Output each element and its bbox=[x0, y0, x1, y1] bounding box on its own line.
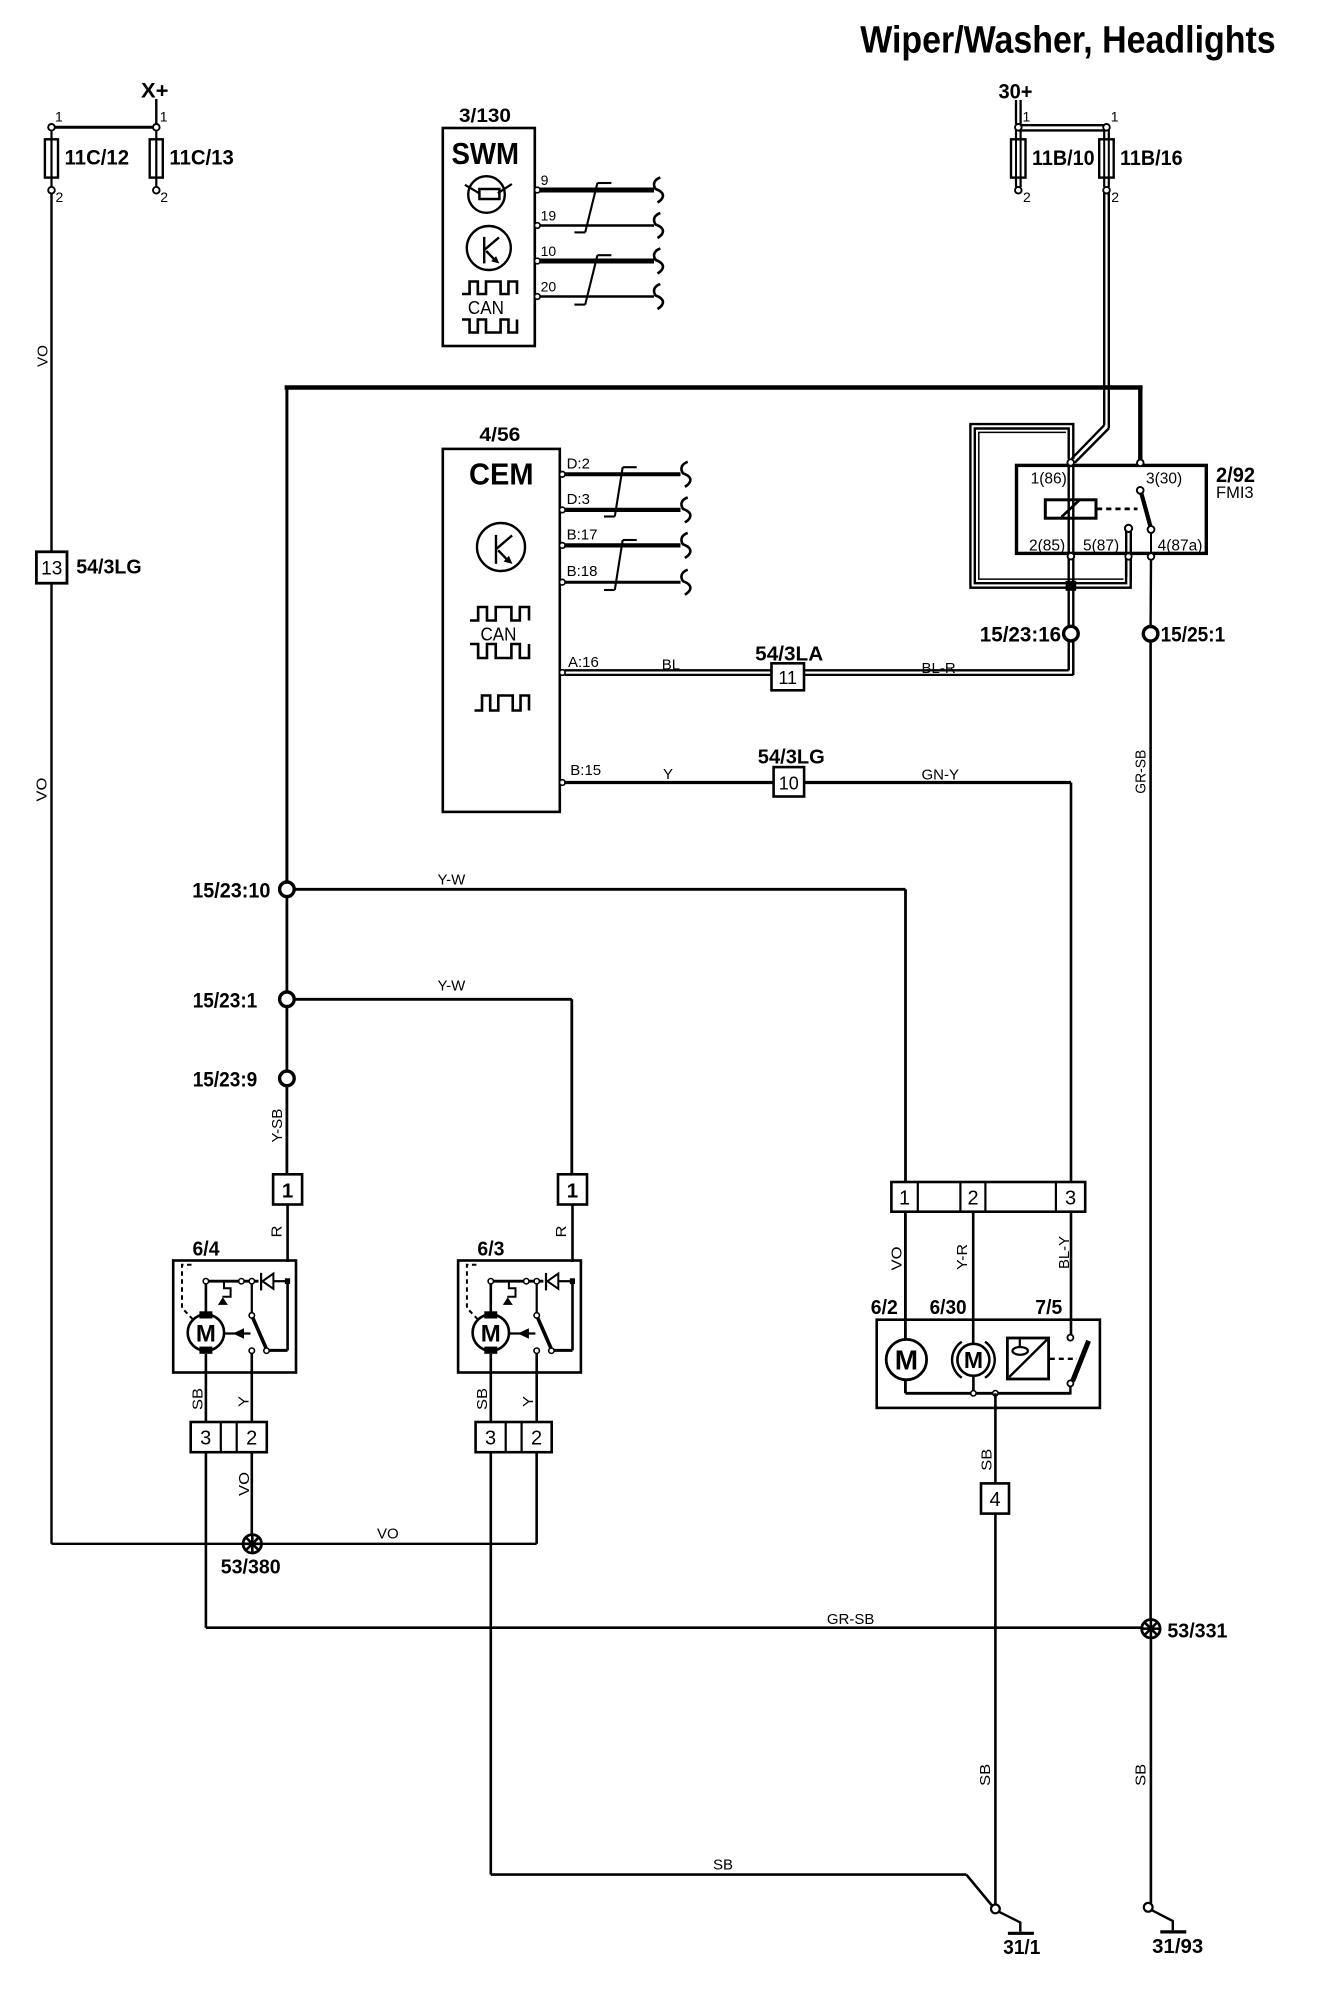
svg-text:7/5: 7/5 bbox=[1035, 1297, 1062, 1319]
svg-text:Y-W: Y-W bbox=[438, 872, 467, 889]
svg-text:BL-R: BL-R bbox=[922, 660, 956, 677]
svg-text:SB: SB bbox=[1133, 1764, 1150, 1786]
svg-text:2: 2 bbox=[967, 1188, 978, 1210]
svg-text:FMI3: FMI3 bbox=[1216, 484, 1254, 502]
svg-text:4/56: 4/56 bbox=[479, 424, 520, 446]
svg-text:VO: VO bbox=[889, 1247, 906, 1271]
svg-text:4: 4 bbox=[989, 1489, 1000, 1511]
svg-text:1: 1 bbox=[55, 109, 63, 125]
svg-text:19: 19 bbox=[541, 207, 557, 223]
svg-text:B:15: B:15 bbox=[570, 762, 601, 779]
svg-text:6/3: 6/3 bbox=[477, 1239, 504, 1261]
svg-text:VO: VO bbox=[34, 778, 51, 802]
svg-text:SB: SB bbox=[474, 1388, 491, 1410]
svg-text:1: 1 bbox=[1111, 109, 1119, 125]
svg-text:2: 2 bbox=[246, 1427, 257, 1449]
svg-text:A:16: A:16 bbox=[568, 654, 599, 671]
svg-text:SB: SB bbox=[189, 1388, 206, 1410]
svg-text:1(86): 1(86) bbox=[1031, 471, 1067, 488]
svg-text:6/2: 6/2 bbox=[871, 1297, 898, 1319]
svg-text:Y: Y bbox=[663, 766, 673, 783]
svg-text:3/130: 3/130 bbox=[459, 105, 511, 127]
svg-text:10: 10 bbox=[541, 243, 557, 259]
svg-text:15/23:9: 15/23:9 bbox=[193, 1068, 258, 1091]
svg-text:D:2: D:2 bbox=[567, 455, 590, 472]
svg-text:Y-W: Y-W bbox=[438, 977, 467, 994]
svg-text:11C/13: 11C/13 bbox=[169, 146, 233, 169]
svg-text:X+: X+ bbox=[141, 80, 169, 103]
svg-text:15/23:16: 15/23:16 bbox=[980, 623, 1061, 646]
svg-text:11B/16: 11B/16 bbox=[1120, 147, 1183, 170]
svg-text:Y: Y bbox=[235, 1396, 252, 1407]
svg-text:CAN: CAN bbox=[468, 298, 504, 318]
svg-text:9: 9 bbox=[541, 172, 549, 188]
svg-text:CEM: CEM bbox=[469, 457, 534, 492]
svg-text:GR-SB: GR-SB bbox=[827, 1611, 875, 1628]
svg-text:SB: SB bbox=[977, 1764, 994, 1786]
svg-text:D:3: D:3 bbox=[567, 491, 590, 508]
svg-text:3(30): 3(30) bbox=[1146, 471, 1182, 488]
svg-text:Y-R: Y-R bbox=[954, 1244, 971, 1270]
svg-text:11C/12: 11C/12 bbox=[65, 146, 129, 169]
svg-text:10: 10 bbox=[779, 774, 799, 794]
svg-text:6/30: 6/30 bbox=[930, 1297, 967, 1319]
svg-text:53/331: 53/331 bbox=[1167, 1621, 1227, 1643]
svg-text:B:17: B:17 bbox=[567, 526, 598, 543]
svg-text:BL-Y: BL-Y bbox=[1056, 1236, 1073, 1269]
svg-text:2: 2 bbox=[1023, 189, 1031, 205]
svg-text:1: 1 bbox=[282, 1179, 293, 1202]
svg-text:11B/10: 11B/10 bbox=[1032, 147, 1095, 170]
svg-text:2: 2 bbox=[1111, 189, 1119, 205]
svg-text:M: M bbox=[481, 1321, 501, 1348]
svg-text:6/4: 6/4 bbox=[193, 1239, 221, 1261]
svg-text:1: 1 bbox=[567, 1179, 578, 1202]
svg-text:1: 1 bbox=[1023, 109, 1031, 125]
svg-text:1: 1 bbox=[160, 109, 168, 125]
svg-text:M: M bbox=[895, 1345, 918, 1376]
svg-text:VO: VO bbox=[236, 1472, 253, 1496]
svg-text:2: 2 bbox=[160, 189, 168, 205]
svg-text:31/93: 31/93 bbox=[1152, 1936, 1203, 1958]
svg-text:Y-SB: Y-SB bbox=[269, 1109, 286, 1143]
svg-text:5(87): 5(87) bbox=[1083, 538, 1119, 555]
svg-text:CAN: CAN bbox=[481, 625, 517, 645]
svg-text:3: 3 bbox=[485, 1427, 496, 1449]
svg-text:54/3LG: 54/3LG bbox=[758, 747, 825, 769]
svg-text:53/380: 53/380 bbox=[221, 1557, 281, 1579]
svg-text:2: 2 bbox=[531, 1427, 542, 1449]
svg-text:3: 3 bbox=[1065, 1188, 1076, 1210]
svg-text:SB: SB bbox=[978, 1449, 995, 1471]
svg-text:2: 2 bbox=[56, 189, 64, 205]
svg-text:BL: BL bbox=[662, 656, 680, 673]
svg-text:1: 1 bbox=[899, 1188, 910, 1210]
svg-text:VO: VO bbox=[34, 345, 51, 367]
svg-text:20: 20 bbox=[541, 278, 557, 294]
svg-text:R: R bbox=[553, 1225, 570, 1237]
svg-text:31/1: 31/1 bbox=[1003, 1937, 1040, 1959]
svg-text:3: 3 bbox=[200, 1427, 211, 1449]
svg-text:GN-Y: GN-Y bbox=[922, 767, 960, 784]
svg-text:SWM: SWM bbox=[452, 136, 520, 171]
svg-text:M: M bbox=[196, 1321, 216, 1348]
svg-text:Wiper/Washer, Headlights: Wiper/Washer, Headlights bbox=[860, 20, 1275, 62]
svg-text:GR-SB: GR-SB bbox=[1133, 750, 1150, 794]
svg-text:4(87a): 4(87a) bbox=[1158, 538, 1203, 555]
svg-text:13: 13 bbox=[41, 559, 62, 580]
svg-text:Y: Y bbox=[520, 1396, 537, 1407]
svg-text:SB: SB bbox=[713, 1857, 733, 1874]
svg-text:R: R bbox=[269, 1225, 286, 1237]
svg-text:15/23:10: 15/23:10 bbox=[192, 879, 270, 902]
svg-text:15/23:1: 15/23:1 bbox=[193, 989, 258, 1012]
svg-text:M: M bbox=[964, 1347, 983, 1373]
svg-text:11: 11 bbox=[778, 668, 797, 688]
svg-text:B:18: B:18 bbox=[567, 563, 598, 580]
svg-text:VO: VO bbox=[377, 1526, 399, 1543]
svg-text:54/3LG: 54/3LG bbox=[76, 557, 141, 579]
svg-text:15/25:1: 15/25:1 bbox=[1161, 623, 1226, 646]
svg-text:2(85): 2(85) bbox=[1029, 538, 1065, 555]
